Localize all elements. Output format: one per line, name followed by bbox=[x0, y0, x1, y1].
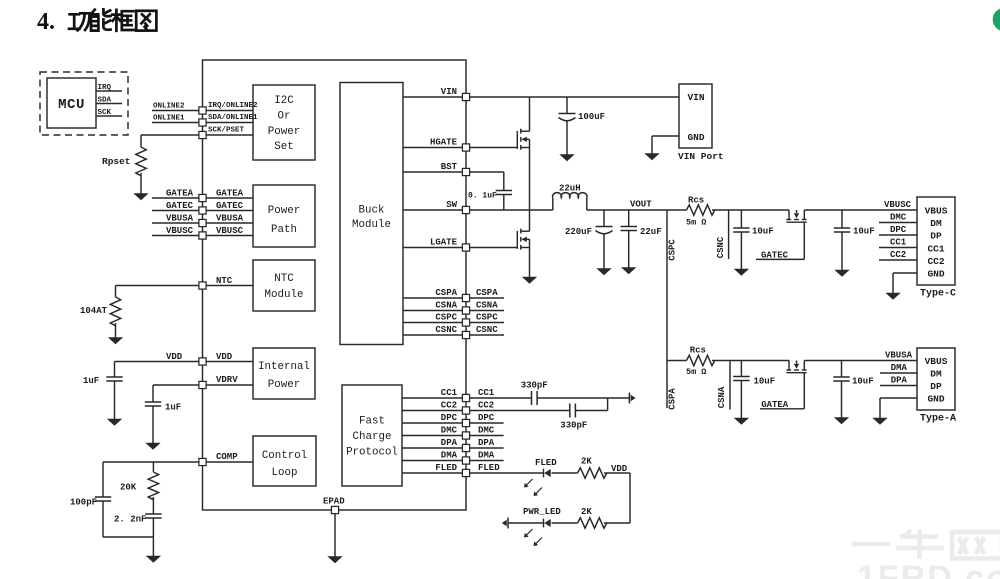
svg-text:Power: Power bbox=[268, 205, 300, 217]
resistor 104AT bbox=[110, 297, 120, 326]
svg-text:1FRD.com: 1FRD.com bbox=[857, 559, 1000, 579]
svg-text:VBUS: VBUS bbox=[925, 356, 948, 367]
svg-text:220uF: 220uF bbox=[565, 227, 592, 237]
svg-text:CSNC: CSNC bbox=[476, 325, 498, 335]
svg-text:CC1: CC1 bbox=[890, 238, 907, 248]
block Control Loop bbox=[253, 436, 316, 486]
svg-text:GATEC: GATEC bbox=[761, 251, 789, 261]
svg-text:ONLINE1: ONLINE1 bbox=[153, 115, 185, 123]
svg-text:100uF: 100uF bbox=[578, 112, 605, 122]
ground of 22uF bbox=[622, 268, 636, 274]
wire DPC to port bbox=[879, 234, 917, 236]
svg-text:PWR_LED: PWR_LED bbox=[523, 507, 561, 517]
pin square GATEA bbox=[199, 194, 206, 201]
wire ONLINE1 bbox=[152, 122, 199, 124]
wire stub CSPC right bbox=[470, 322, 504, 324]
svg-text:DP: DP bbox=[930, 381, 942, 392]
wire Q1 drain to VIN bbox=[529, 97, 531, 131]
svg-text:104AT: 104AT bbox=[80, 306, 108, 316]
wire Q2 drain to SW bbox=[529, 210, 531, 231]
pin square BST bbox=[462, 168, 469, 175]
svg-text:CSPC: CSPC bbox=[476, 312, 498, 322]
svg-text:CSPC: CSPC bbox=[668, 239, 678, 261]
wire COMP bottom bbox=[103, 536, 153, 538]
svg-text:VBUSA: VBUSA bbox=[216, 214, 244, 224]
MCU box bbox=[47, 78, 96, 128]
block NTC Module bbox=[253, 260, 315, 311]
svg-text:NTC: NTC bbox=[274, 273, 294, 285]
wire VDD bbox=[115, 361, 199, 363]
wire DPA to port bbox=[880, 385, 917, 387]
capacitor 330pF (CC2) bbox=[569, 404, 571, 418]
svg-text:10uF: 10uF bbox=[853, 227, 875, 237]
ground of 220uF bbox=[597, 269, 611, 275]
capacitor 100pF bbox=[102, 462, 104, 497]
IC main outline bbox=[203, 60, 467, 510]
capacitor 1uF (VDRV) bbox=[152, 385, 154, 402]
svg-text:Rcs: Rcs bbox=[690, 346, 706, 356]
pin square CC1 bbox=[462, 394, 469, 401]
svg-text:DM: DM bbox=[930, 218, 942, 229]
svg-text:DPC: DPC bbox=[478, 413, 495, 423]
node CSPC/CSPA vertical bbox=[666, 210, 668, 408]
svg-text:Control: Control bbox=[262, 450, 307, 462]
svg-text:GATEA: GATEA bbox=[761, 400, 789, 410]
wire VBUSA to port bbox=[804, 360, 917, 362]
svg-text:DMC: DMC bbox=[890, 213, 907, 223]
ground of 104AT bbox=[109, 338, 123, 344]
ground of VDRV cap bbox=[146, 443, 160, 449]
ground of Rpset bbox=[134, 194, 148, 200]
esd ground (rotated) bbox=[628, 393, 630, 404]
svg-text:SDA/ONLINE1: SDA/ONLINE1 bbox=[208, 114, 258, 122]
ground of EPAD bbox=[328, 557, 342, 563]
pin square NTC bbox=[199, 282, 206, 289]
svg-text:GND: GND bbox=[687, 132, 704, 143]
wire Buck pin LGATE bbox=[403, 247, 462, 249]
pin square VBUSA bbox=[199, 219, 206, 226]
wire VBUSC to port bbox=[804, 209, 917, 211]
svg-text:VBUSC: VBUSC bbox=[166, 226, 194, 236]
wire Type-C GND bbox=[893, 272, 917, 274]
svg-text:Power: Power bbox=[268, 126, 300, 138]
svg-text:EPAD: EPAD bbox=[323, 497, 345, 507]
pin square VDD bbox=[199, 358, 206, 365]
wire VBUSC stub bbox=[152, 235, 199, 237]
pin square DPA bbox=[462, 444, 469, 451]
VIN Port box bbox=[679, 84, 712, 148]
ground of VDD cap bbox=[108, 419, 122, 425]
pin square COMP bbox=[199, 458, 206, 465]
pin square CSPC bbox=[462, 319, 469, 326]
pin square LGATE bbox=[462, 244, 469, 251]
pin square CSNA bbox=[462, 307, 469, 314]
wire FastCharge pin DMC bbox=[402, 435, 462, 437]
wire stub CSNA right bbox=[470, 310, 504, 312]
svg-text:1uF: 1uF bbox=[165, 403, 181, 413]
ground of Q2 bbox=[523, 277, 537, 283]
svg-text:FLED: FLED bbox=[478, 463, 500, 473]
svg-text:DPA: DPA bbox=[441, 438, 458, 448]
svg-text:2K: 2K bbox=[581, 457, 592, 467]
wire FastCharge pin DPC bbox=[402, 422, 462, 424]
wire CC2 esd bbox=[470, 410, 570, 412]
svg-text:BST: BST bbox=[441, 162, 458, 172]
svg-text:330pF: 330pF bbox=[521, 381, 548, 391]
wire COMP network bbox=[103, 461, 199, 463]
capacitor 1uF (VDD) bbox=[114, 362, 116, 378]
svg-text:DPC: DPC bbox=[441, 413, 458, 423]
svg-text:DP: DP bbox=[930, 231, 942, 242]
wire ONLINE2 bbox=[152, 110, 199, 112]
svg-text:1uF: 1uF bbox=[83, 376, 99, 386]
svg-text:CSNC: CSNC bbox=[716, 236, 726, 258]
resistor 2K (FLED) bbox=[578, 468, 607, 478]
pin VDRV bbox=[206, 384, 253, 386]
capacitor 2.2nF bbox=[145, 513, 161, 515]
pin COMP bbox=[206, 461, 253, 463]
pin square CSNC bbox=[462, 331, 469, 338]
wire BST bbox=[470, 171, 504, 173]
svg-text:ONLINE2: ONLINE2 bbox=[153, 103, 185, 111]
capacitor 10uF (A-right) bbox=[841, 361, 843, 378]
wire FastCharge pin CC2 bbox=[402, 410, 462, 412]
node CSNC stub bbox=[728, 210, 730, 259]
svg-text:Protocol: Protocol bbox=[346, 447, 398, 459]
wire stub DPC right bbox=[470, 422, 504, 424]
svg-text:CC2: CC2 bbox=[441, 400, 457, 410]
transistor Q1 HGATE nmos bbox=[470, 147, 518, 149]
pin square CC2 bbox=[462, 407, 469, 414]
wire stub DMA right bbox=[470, 460, 504, 462]
resistor 20K bbox=[152, 462, 154, 472]
wire CC1 to port bbox=[879, 247, 917, 249]
svg-text:GATEC: GATEC bbox=[216, 201, 244, 211]
wire SW / VOUT row bbox=[470, 209, 553, 211]
pin square DMA bbox=[462, 457, 469, 464]
svg-text:NTC: NTC bbox=[216, 276, 233, 286]
Type-A port box bbox=[917, 348, 955, 410]
wire VIN Port GND bbox=[652, 135, 679, 137]
wire FastCharge pin DPA bbox=[402, 447, 462, 449]
svg-text:VBUSC: VBUSC bbox=[884, 200, 912, 210]
svg-text:SW: SW bbox=[446, 200, 457, 210]
svg-text:HGATE: HGATE bbox=[430, 137, 458, 147]
svg-text:DPA: DPA bbox=[478, 438, 495, 448]
svg-text:CSPA: CSPA bbox=[476, 288, 498, 298]
wire Buck pin HGATE bbox=[403, 147, 462, 149]
svg-text:VBUSA: VBUSA bbox=[885, 351, 913, 361]
svg-text:0. 1uF: 0. 1uF bbox=[468, 192, 497, 201]
svg-text:100pF: 100pF bbox=[70, 498, 97, 508]
green badge (top-right corner) bbox=[993, 8, 1000, 32]
svg-text:GND: GND bbox=[927, 268, 944, 279]
pin square VIN bbox=[462, 93, 469, 100]
resistor 2K (PWR_LED) bbox=[578, 518, 607, 528]
wire Type-A row bbox=[667, 360, 687, 362]
svg-text:Internal: Internal bbox=[258, 361, 310, 373]
wire DMA to port bbox=[880, 372, 917, 374]
pin square IRQ bbox=[199, 107, 206, 114]
svg-text:CC1: CC1 bbox=[478, 388, 495, 398]
node CSNA stub bbox=[729, 361, 731, 410]
ground of 10uF C-left bbox=[735, 269, 749, 275]
svg-text:VDD: VDD bbox=[611, 464, 628, 474]
wire Q1 source to SW bbox=[529, 139, 531, 210]
svg-text:Path: Path bbox=[271, 224, 297, 236]
svg-text:IRQ/ONLINE2: IRQ/ONLINE2 bbox=[208, 102, 258, 110]
capacitor 10uF (C-left) bbox=[740, 210, 742, 228]
wire stub DPA right bbox=[470, 447, 504, 449]
pin square CSPA bbox=[462, 294, 469, 301]
svg-text:Buck: Buck bbox=[359, 205, 385, 217]
svg-text:CSPC: CSPC bbox=[435, 312, 457, 322]
wire VBUSA stub bbox=[152, 222, 199, 224]
svg-text:LGATE: LGATE bbox=[430, 237, 458, 247]
pin GATEA bbox=[206, 197, 253, 199]
svg-text:5m Ω: 5m Ω bbox=[686, 367, 706, 377]
svg-text:CC2: CC2 bbox=[890, 250, 906, 260]
svg-text:FLED: FLED bbox=[435, 463, 457, 473]
svg-text:SDA: SDA bbox=[98, 97, 112, 105]
svg-text:DMC: DMC bbox=[478, 425, 495, 435]
svg-text:Type-C: Type-C bbox=[920, 289, 956, 300]
svg-text:VIN Port: VIN Port bbox=[678, 151, 724, 162]
pin square FLED bbox=[462, 469, 469, 476]
LED PWR_LED bbox=[543, 519, 545, 528]
block Buck Module bbox=[340, 83, 403, 345]
svg-text:VDRV: VDRV bbox=[216, 375, 238, 385]
wire CC2 riser bbox=[607, 398, 609, 411]
capacitor 22uF (VOUT) bbox=[628, 210, 630, 227]
svg-text:VBUSC: VBUSC bbox=[216, 226, 244, 236]
svg-text:SCK: SCK bbox=[98, 109, 112, 117]
pin square SW bbox=[462, 206, 469, 213]
svg-text:GATEA: GATEA bbox=[166, 189, 194, 199]
svg-text:CSNA: CSNA bbox=[476, 300, 498, 310]
pin IRQ/ONLINE2 bbox=[206, 110, 253, 112]
Type-C port box bbox=[917, 197, 955, 285]
svg-text:Or: Or bbox=[278, 110, 291, 122]
wire Buck pin BST bbox=[403, 171, 462, 173]
capacitor 100uF bbox=[566, 97, 568, 114]
svg-text:FLED: FLED bbox=[535, 458, 557, 468]
pin square SCK bbox=[199, 131, 206, 138]
wire CC1 esd bbox=[470, 397, 531, 399]
wire Buck pin VIN bbox=[403, 96, 462, 98]
svg-text:GATEA: GATEA bbox=[216, 189, 244, 199]
pin VDD bbox=[206, 361, 253, 363]
wire stub CSNC right bbox=[470, 334, 504, 336]
ground of COMP network bbox=[147, 556, 161, 562]
ground of Type-C bbox=[886, 293, 900, 299]
wire VDD to PWR_LED bbox=[629, 473, 631, 523]
svg-text:DMA: DMA bbox=[891, 363, 908, 373]
svg-text:GATEC: GATEC bbox=[166, 201, 194, 211]
pin square VDRV bbox=[199, 381, 206, 388]
wire FastCharge pin FLED bbox=[402, 472, 462, 474]
ground of Type-A bbox=[873, 418, 887, 424]
MCU dashed box bbox=[40, 72, 128, 135]
svg-text:Set: Set bbox=[274, 141, 293, 153]
pin GATEC bbox=[206, 210, 253, 212]
wire GATEA bbox=[803, 373, 805, 409]
svg-text:10uF: 10uF bbox=[752, 227, 774, 237]
svg-text:Module: Module bbox=[352, 219, 391, 231]
svg-text:2K: 2K bbox=[581, 507, 592, 517]
wire VDRV bbox=[153, 384, 199, 386]
capacitor 0.1uF (bootstrap) bbox=[496, 190, 512, 192]
svg-text:Rpset: Rpset bbox=[102, 156, 131, 167]
pin VBUSC bbox=[206, 235, 253, 237]
ground of 10uF C-right bbox=[835, 270, 849, 276]
svg-text:CC1: CC1 bbox=[441, 388, 458, 398]
wire Buck pin CSPC bbox=[403, 322, 462, 324]
svg-text:VDD: VDD bbox=[166, 352, 183, 362]
svg-text:VIN: VIN bbox=[687, 92, 704, 103]
svg-text:SCK/PSET: SCK/PSET bbox=[208, 127, 245, 135]
ground of 100uF bbox=[560, 155, 574, 161]
svg-text:Module: Module bbox=[265, 289, 304, 301]
capacitor 330pF (CC1) bbox=[531, 391, 533, 405]
wire FLED row bbox=[470, 472, 544, 474]
svg-text:IRQ: IRQ bbox=[98, 84, 112, 92]
wire GATEC stub bbox=[152, 210, 199, 212]
wire CC2 to port bbox=[879, 259, 917, 261]
pin SDA/ONLINE1 bbox=[206, 122, 253, 124]
svg-text:MCU: MCU bbox=[58, 97, 85, 113]
svg-text:VBUS: VBUS bbox=[925, 206, 948, 217]
svg-text:10uF: 10uF bbox=[754, 377, 776, 387]
transistor Q4 pass fet Type-A bbox=[788, 361, 790, 371]
block Power Path bbox=[253, 185, 315, 247]
wire VBUSC row bbox=[712, 209, 789, 211]
ground of VIN Port bbox=[645, 154, 659, 160]
svg-text:VDD: VDD bbox=[216, 352, 233, 362]
watermark yiniuwang bbox=[852, 530, 1000, 560]
block I2C Or Power Set bbox=[253, 85, 315, 160]
ground of 10uF A-left bbox=[735, 418, 749, 424]
svg-text:VBUSA: VBUSA bbox=[166, 214, 194, 224]
svg-text:Rcs: Rcs bbox=[688, 196, 704, 206]
svg-text:GND: GND bbox=[927, 393, 944, 404]
svg-text:10uF: 10uF bbox=[852, 377, 874, 387]
wire stub CSPA right bbox=[470, 297, 504, 299]
svg-text:DMA: DMA bbox=[441, 450, 458, 460]
svg-text:CC2: CC2 bbox=[927, 256, 944, 267]
svg-text:DMA: DMA bbox=[478, 450, 495, 460]
pin square DPC bbox=[462, 419, 469, 426]
transistor Q3 pass fet Type-C bbox=[788, 210, 790, 220]
svg-text:I2C: I2C bbox=[274, 95, 294, 107]
svg-text:CC2: CC2 bbox=[478, 400, 494, 410]
wire DMC to port bbox=[879, 222, 917, 224]
resistor Rpset bbox=[141, 134, 199, 136]
svg-text:COMP: COMP bbox=[216, 452, 238, 462]
wire GATEA stub bbox=[152, 197, 199, 199]
svg-text:Loop: Loop bbox=[272, 467, 298, 479]
svg-text:22uF: 22uF bbox=[640, 227, 662, 237]
wire GATEC bbox=[803, 222, 805, 259]
pin square GATEC bbox=[199, 207, 206, 214]
pin SCK/PSET bbox=[206, 134, 253, 136]
svg-text:CSNA: CSNA bbox=[717, 386, 727, 408]
ground of 10uF A-right bbox=[835, 418, 849, 424]
wire Buck pin CSNA bbox=[403, 310, 462, 312]
block Internal Power bbox=[253, 348, 315, 399]
svg-text:CSNA: CSNA bbox=[435, 300, 457, 310]
pin square VBUSC bbox=[199, 232, 206, 239]
wire FastCharge pin CC1 bbox=[402, 397, 462, 399]
transistor Q2 LGATE nmos bbox=[470, 247, 518, 249]
wire EPAD to ground bbox=[334, 514, 336, 557]
pin VBUSA bbox=[206, 222, 253, 224]
svg-text:DPC: DPC bbox=[890, 225, 907, 235]
svg-text:CSNC: CSNC bbox=[435, 325, 457, 335]
wire NTC to thermistor bbox=[116, 285, 199, 287]
svg-text:5m Ω: 5m Ω bbox=[686, 218, 706, 228]
MCU wires IRQ SDA SCK bbox=[96, 90, 122, 92]
svg-text:4.: 4. bbox=[37, 9, 55, 35]
wire Buck pin CSPA bbox=[403, 297, 462, 299]
svg-text:22uH: 22uH bbox=[559, 184, 581, 194]
svg-text:DMC: DMC bbox=[441, 425, 458, 435]
svg-text:Power: Power bbox=[268, 379, 300, 391]
pin square SDA bbox=[199, 119, 206, 126]
wire Type-A GND bbox=[880, 397, 917, 399]
wire VIN row bbox=[470, 96, 679, 98]
svg-text:VOUT: VOUT bbox=[630, 200, 652, 210]
svg-text:Fast: Fast bbox=[359, 416, 385, 428]
wire stub DMC right bbox=[470, 435, 504, 437]
wire FastCharge pin DMA bbox=[402, 460, 462, 462]
capacitor 10uF (A-left) bbox=[740, 361, 742, 377]
svg-text:CSPA: CSPA bbox=[435, 288, 457, 298]
svg-text:DM: DM bbox=[930, 368, 942, 379]
capacitor 220uF bbox=[603, 210, 605, 227]
wire Buck pin SW bbox=[403, 209, 462, 211]
resistor Rcs (Type-A) bbox=[687, 355, 715, 365]
svg-text:VIN: VIN bbox=[441, 87, 457, 97]
ground of PWR_LED (rotated) bbox=[507, 518, 509, 529]
svg-text:Type-A: Type-A bbox=[920, 414, 956, 425]
svg-text:CC1: CC1 bbox=[927, 243, 944, 254]
svg-text:CSPA: CSPA bbox=[668, 388, 678, 410]
wire Q2 source to ground bbox=[529, 239, 531, 277]
svg-text:DPA: DPA bbox=[891, 376, 908, 386]
wire Buck pin CSNC bbox=[403, 334, 462, 336]
pin square HGATE bbox=[462, 144, 469, 151]
inductor 22uH bbox=[552, 198, 554, 210]
block Fast Charge Protocol bbox=[342, 385, 402, 486]
capacitor 10uF (C-right) bbox=[841, 210, 843, 228]
svg-text:2. 2nF: 2. 2nF bbox=[114, 515, 146, 525]
svg-text:330pF: 330pF bbox=[560, 421, 587, 431]
resistor Rcs (Type-C) bbox=[687, 205, 715, 215]
LED FLED bbox=[543, 469, 545, 478]
svg-text:Charge: Charge bbox=[353, 431, 392, 443]
pin NTC bbox=[206, 285, 253, 287]
pin square DMC bbox=[462, 432, 469, 439]
svg-text:20K: 20K bbox=[120, 483, 137, 493]
